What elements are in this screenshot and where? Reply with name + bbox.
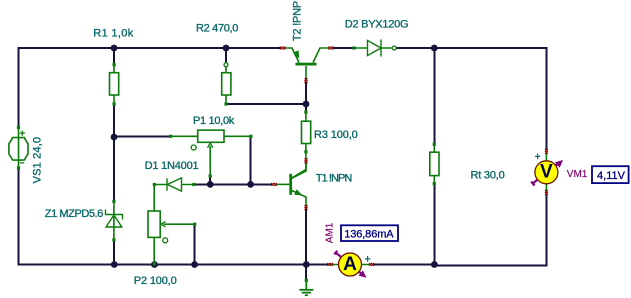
potentiometer P2: [148, 185, 196, 266]
diode D1: [153, 178, 196, 191]
svg-text:A: A: [343, 254, 357, 275]
svg-text:Rt 30,0: Rt 30,0: [471, 170, 505, 182]
wire left branch top (to VS1): [18, 47, 20, 127]
zener diode Z1: [106, 200, 123, 242]
pin marks AM1 right: [369, 263, 374, 266]
wire T1 emitter down to ground node: [305, 209, 307, 280]
pin marks VM1 bottom: [545, 190, 548, 195]
readout box VM1: [592, 166, 629, 183]
node junction P2 bottom: [151, 261, 158, 268]
wire bottom run left of AM1: [18, 264, 328, 266]
pin marks T1 collector: [305, 158, 308, 163]
resistor R1: [110, 63, 119, 106]
wire Rt branch: [433, 48, 435, 265]
pin marks T2 emitter: [280, 47, 286, 50]
wire D2 to right corner: [396, 47, 547, 49]
node junction Z1 bottom: [111, 261, 118, 268]
node junction P2 wiper bottom: [191, 261, 198, 268]
svg-text:4,11V: 4,11V: [597, 170, 626, 182]
readout box AM1: [341, 225, 398, 241]
wire bottom run right of AM1: [372, 264, 435, 266]
node junction R2 top: [223, 45, 230, 52]
svg-text:Z1 MZPD5.6: Z1 MZPD5.6: [45, 208, 104, 220]
pin marks T2 base: [305, 78, 308, 83]
node junction P1 wiper / D1: [207, 181, 214, 188]
transistor T1 (NPN): [276, 162, 306, 206]
wire T2 collector to D2: [334, 47, 355, 49]
node junction ground / T1 emitter: [303, 261, 310, 268]
wire R1 branch: [113, 48, 115, 265]
node junction R1 top: [111, 45, 118, 52]
wire R1-junction to P1 left: [114, 136, 171, 138]
svg-text:VM1: VM1: [567, 169, 588, 180]
label AM1 plus: [365, 256, 371, 262]
resistor Rt: [430, 143, 439, 186]
resistor R2: [222, 63, 231, 106]
svg-text:R1 1,0k: R1 1,0k: [93, 27, 133, 39]
svg-text:T1 !NPN: T1 !NPN: [316, 173, 353, 185]
ground: [299, 279, 313, 295]
resistor R3: [291, 111, 311, 179]
node junction R1 bottom / P1 left: [111, 134, 118, 141]
svg-text:VS1 24,0: VS1 24,0: [31, 137, 43, 183]
wire top-left horizontal run: [18, 47, 281, 49]
wire P2 wiper to bottom: [194, 224, 196, 264]
wire base node run (D1 to T1 base): [194, 176, 272, 184]
svg-text:R2 470,0: R2 470,0: [196, 23, 238, 35]
label VM1 plus: [535, 154, 540, 160]
pin marks AM1 left: [327, 263, 333, 266]
node junction Rt top: [431, 45, 438, 52]
node junction R2/T2 base/R3: [303, 101, 310, 108]
pin marks T1 emitter: [305, 205, 308, 210]
svg-text:T2 !PNP: T2 !PNP: [291, 1, 303, 41]
svg-text:P2 100,0: P2 100,0: [134, 275, 177, 287]
ammeter AM1: [330, 251, 370, 278]
svg-text:D1 1N4001: D1 1N4001: [145, 160, 199, 172]
diode D2: [353, 40, 397, 57]
svg-text:P1 10,0k: P1 10,0k: [193, 115, 235, 127]
svg-text:V: V: [540, 162, 553, 183]
svg-text:AM1: AM1: [324, 222, 335, 243]
wire R2 branch: [226, 48, 306, 104]
wire P1 right terminal down to base node: [250, 137, 252, 185]
pin marks VM1 top: [545, 149, 548, 154]
svg-text:136,86mA: 136,86mA: [344, 229, 394, 241]
wire T2 base down to R3 node: [305, 82, 307, 112]
node junction Rt bottom: [431, 261, 438, 268]
wire right branch down to VM1: [546, 47, 548, 150]
svg-text:R3 100,0: R3 100,0: [314, 129, 358, 141]
pin marks T1 base: [271, 183, 277, 186]
voltage source VS1: [9, 126, 28, 170]
potentiometer P1: [169, 130, 252, 177]
voltmeter VM1: [531, 153, 563, 193]
wire left branch bottom (from VS1): [18, 168, 20, 266]
pin marks T2 collector: [328, 47, 334, 50]
svg-text:D2 BYX120G: D2 BYX120G: [345, 19, 409, 31]
wire VM1 down to bottom-right corner: [435, 194, 547, 266]
node junction P1 right / T1 base: [247, 181, 254, 188]
transistor T2 (PNP): [285, 48, 329, 80]
